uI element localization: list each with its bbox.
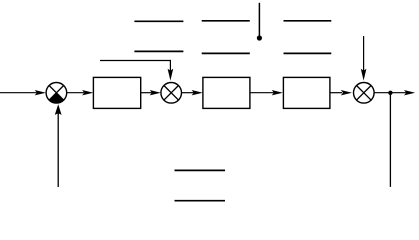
wire G1 to summing junction S2 bbox=[141, 90, 161, 95]
wire S1 to block G1 bbox=[67, 90, 94, 95]
summing junction S3 (circle with X) bbox=[354, 83, 375, 104]
wire disturbance vertical into S3 (down arrow) bbox=[361, 36, 367, 81]
block G3 bbox=[283, 77, 330, 108]
fraction bar pair 1 denominator bbox=[134, 50, 183, 52]
junction dot on output wire bbox=[388, 91, 392, 95]
block G2 bbox=[203, 77, 250, 108]
fraction bar feedback numerator bbox=[175, 169, 226, 171]
fraction bar pair 2 denominator bbox=[202, 52, 250, 54]
fraction bar pair 3 denominator bbox=[284, 52, 332, 54]
block G1 bbox=[93, 77, 140, 108]
wire input R(s) into summing junction 1 bbox=[0, 90, 46, 95]
wire disturbance elbow into S2 (down arrow) bbox=[100, 61, 173, 81]
fraction bar pair 1 numerator bbox=[134, 20, 183, 22]
fraction bar pair 3 numerator bbox=[284, 20, 332, 22]
wire feedback vertical right bbox=[389, 93, 391, 187]
wire S2 to block G2 bbox=[182, 90, 203, 95]
wire G2 to block G3 bbox=[250, 90, 283, 95]
wire G3 to summing junction S3 bbox=[330, 90, 352, 95]
summing junction S2 (circle with X) bbox=[161, 83, 182, 104]
pointer line with node dot bbox=[257, 3, 262, 41]
fraction bar pair 2 numerator bbox=[202, 20, 250, 22]
summing junction S1 (circle with X, bottom quadrant filled) bbox=[46, 83, 67, 104]
fraction bar feedback denominator bbox=[175, 200, 226, 202]
wire output C(s) from S3 bbox=[374, 90, 415, 95]
wire feedback vertical left with up arrow into S1 bbox=[55, 104, 62, 187]
